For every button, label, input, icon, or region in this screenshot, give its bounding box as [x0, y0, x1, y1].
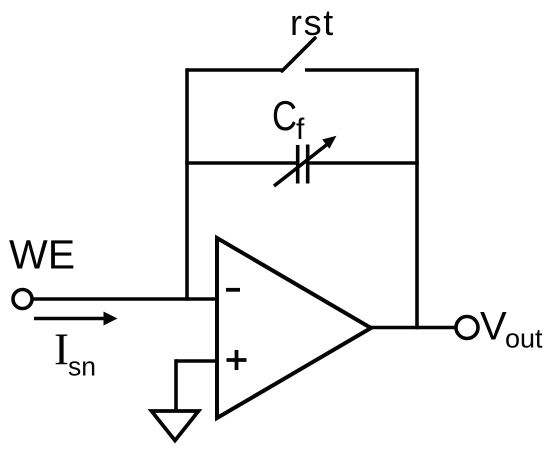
svg-text:C: C: [272, 92, 297, 139]
wire left feedback vertical: [185, 68, 189, 301]
op-amp U1: [217, 238, 371, 418]
svg-text:V: V: [480, 305, 507, 349]
wire output: [369, 326, 457, 330]
wire capacitor branch right: [308, 161, 419, 165]
svg-text:f: f: [296, 113, 305, 146]
wire top feedback right segment: [305, 68, 419, 72]
svg-text:sn: sn: [68, 352, 96, 382]
wire right feedback vertical: [415, 68, 419, 329]
terminal WE: [13, 290, 32, 309]
svg-text:I: I: [54, 325, 69, 375]
capacitor Cf left plate: [296, 145, 300, 184]
op-amp minus input label: [226, 288, 240, 292]
wire ground drop: [174, 359, 178, 411]
ground: [152, 411, 199, 441]
svg-text:rst: rst: [290, 2, 335, 43]
wire input WE to inverting input: [31, 297, 217, 301]
capacitor Cf right plate: [306, 145, 310, 184]
op-amp plus input label: [227, 350, 247, 370]
wire capacitor branch left: [185, 161, 297, 165]
svg-text:WE: WE: [9, 232, 75, 278]
terminal Vout: [456, 317, 478, 339]
capacitor variable arrow: [274, 136, 337, 186]
svg-text:out: out: [505, 324, 543, 354]
switch rst blade: [282, 38, 315, 71]
current arrow Isn: [34, 312, 118, 326]
wire non-inverting input: [176, 359, 217, 363]
wire top feedback left segment: [187, 68, 283, 72]
